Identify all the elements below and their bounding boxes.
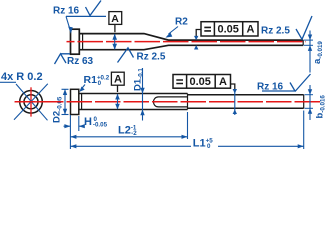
- L2 dimension: [70, 125, 187, 139]
- H dimension: [64, 116, 108, 129]
- datum A (bottom view): [111, 72, 124, 92]
- svg-text:R2: R2: [175, 17, 188, 28]
- front view circles: [20, 91, 43, 114]
- centerline top view: [67, 41, 307, 43]
- tolerance frame 2 (bottom view): [173, 75, 237, 116]
- R1 label + leader (bottom): [80, 74, 110, 92]
- Rz 16 roughness (top-left): [53, 1, 106, 34]
- fillet line: [81, 94, 83, 110]
- svg-text:4x R 0.2: 4x R 0.2: [1, 71, 43, 83]
- D2 dimension line: [62, 89, 69, 114]
- svg-text:Rz 16: Rz 16: [53, 6, 80, 17]
- pin body outline top view: [71, 29, 304, 54]
- head: [71, 29, 80, 54]
- dimension a (right end, top view): [304, 31, 324, 73]
- shaft bottom edge + taper + blade bottom: [80, 45, 304, 49]
- datum A (top view): [109, 12, 122, 33]
- svg-text:b-0.016: b-0.016: [315, 95, 325, 119]
- D1 dimension line: [140, 68, 144, 121]
- blade top/bottom: [188, 94, 304, 96]
- fillet line: [82, 34, 84, 50]
- diameter double arrow under datum A (top view): [112, 34, 117, 50]
- svg-text:L1+50: L1+50: [193, 138, 213, 150]
- blade end: [303, 95, 305, 109]
- head: [71, 89, 79, 114]
- R2 label + leader (top): [166, 17, 189, 38]
- tolerance frame 1 (top view): [194, 22, 258, 50]
- dimension b (right end, bottom view): [305, 85, 325, 120]
- svg-text:H0-0.05: H0-0.05: [84, 116, 108, 129]
- step: [187, 94, 189, 110]
- svg-text:Rz 2.5: Rz 2.5: [261, 26, 290, 37]
- svg-text:L2-1-2: L2-1-2: [118, 125, 137, 138]
- crosshair front view: [15, 87, 48, 116]
- svg-text:A: A: [114, 74, 122, 86]
- svg-text:0.05: 0.05: [190, 76, 211, 88]
- diameter double arrow under datum A (bottom view): [115, 94, 120, 110]
- X diagonals front view: [0, 82, 48, 120]
- transition capsule: [153, 97, 187, 107]
- Rz 2.5 (top right): [261, 16, 312, 39]
- centerline bottom view: [15, 101, 320, 103]
- Rz 2.5 (middle, under taper): [118, 48, 166, 63]
- svg-text:R1+0.20: R1+0.20: [84, 74, 110, 87]
- svg-text:A: A: [247, 24, 255, 36]
- shaft top edge + taper + blade top: [80, 34, 304, 41]
- Rz 63 roughness (under head): [55, 54, 94, 67]
- extension lines bottom dims: [70, 111, 303, 150]
- Rz 16 roughness (bottom right): [257, 74, 311, 93]
- L1 dimension: [70, 138, 303, 151]
- pin body outline bottom view: [71, 89, 304, 114]
- svg-text:a-0.019: a-0.019: [312, 41, 324, 64]
- svg-text:A: A: [219, 76, 227, 88]
- svg-text:A: A: [111, 13, 119, 25]
- blade end cap: [302, 40, 304, 45]
- svg-text:D2-0.05: D2-0.05: [51, 96, 63, 123]
- shaft top/bottom: [79, 93, 188, 95]
- svg-text:Rz 2.5: Rz 2.5: [137, 52, 166, 63]
- svg-text:Rz 63: Rz 63: [67, 56, 94, 67]
- svg-text:0.05: 0.05: [218, 24, 239, 36]
